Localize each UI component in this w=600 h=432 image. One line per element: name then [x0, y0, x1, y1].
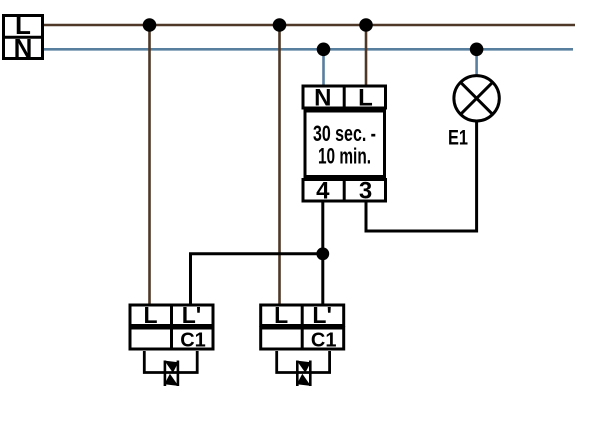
svg-text:N: N [314, 85, 331, 112]
S1 terminal divider top [170, 304, 173, 328]
supply terminal block L/N [2, 16, 44, 59]
S1 divider bottom row [170, 327, 173, 351]
wire: L phase bus (brown horizontal) [44, 24, 575, 27]
svg-text:C1: C1 [180, 330, 206, 352]
S1 triac symbol: left bar [164, 361, 167, 387]
timer relay U1: lower terminal row [303, 180, 386, 202]
S2 sensor loop (U shape below box) [277, 351, 330, 373]
lamp E1 (circle with cross) [454, 76, 499, 121]
wire: branch from node to left switch L' (horizontal + drop) [191, 254, 323, 305]
S2 triac symbol: upper triangle [297, 361, 311, 373]
S1 lower row [130, 328, 213, 349]
junction node on terminal-4 wire [316, 247, 329, 260]
timer relay U1: body [305, 111, 385, 177]
wire: brown drop from L bus to timer terminal L [365, 25, 368, 86]
svg-text:3: 3 [359, 178, 372, 205]
svg-text:L: L [143, 302, 157, 328]
wire: blue drop from N bus to timer terminal N [322, 49, 325, 86]
S2 lower row [261, 328, 344, 349]
svg-text:L: L [358, 85, 373, 112]
S1 triac symbol: upper triangle [164, 361, 178, 373]
S2 triac symbol: right bar [309, 361, 312, 387]
wire: timer terminal 3 to lamp E1 bottom [366, 121, 477, 231]
svg-text:C1: C1 [311, 330, 337, 352]
S2 triac symbol: left bar [296, 361, 299, 387]
svg-text:L': L' [182, 302, 202, 328]
S2 triac symbol: lower triangle [297, 374, 311, 386]
timer relay U1: upper terminal row [303, 86, 386, 108]
junction on N bus above timer [317, 43, 331, 57]
push-button switch S2 (right): terminal row [261, 305, 344, 326]
svg-text:10 min.: 10 min. [318, 144, 371, 169]
junction on N bus above lamp [470, 43, 484, 57]
svg-text:N: N [14, 33, 33, 63]
S1 sensor loop (U shape below box) [144, 351, 197, 373]
S1 triac symbol: lower triangle [164, 374, 178, 386]
junction on L bus above right switch [273, 18, 287, 32]
wire: timer terminal 4 down to right switch L' [321, 202, 324, 305]
svg-text:30 sec. -: 30 sec. - [313, 121, 376, 146]
S2 terminal divider top [301, 304, 304, 328]
svg-text:4: 4 [316, 178, 330, 205]
wire: blue drop from N bus to lamp E1 [475, 49, 478, 77]
junction on L bus above left switch [143, 18, 157, 32]
wire: brown drop from L bus to switch C1 (left) terminal L [148, 25, 151, 305]
timer lower terminal divider [343, 178, 346, 203]
svg-text:L': L' [312, 302, 332, 328]
wire: N neutral bus (blue horizontal) [44, 48, 573, 51]
push-button switch S1 (left): terminal row [130, 305, 213, 326]
S2 divider bottom row [301, 327, 304, 351]
timer upper terminal divider [343, 85, 346, 110]
wire: brown drop from L bus to switch C1 (right) terminal L [278, 25, 281, 305]
svg-text:E1: E1 [448, 127, 468, 150]
S1 triac symbol: right bar [177, 361, 180, 387]
svg-text:L: L [274, 302, 288, 328]
junction on L bus above timer [359, 18, 373, 32]
